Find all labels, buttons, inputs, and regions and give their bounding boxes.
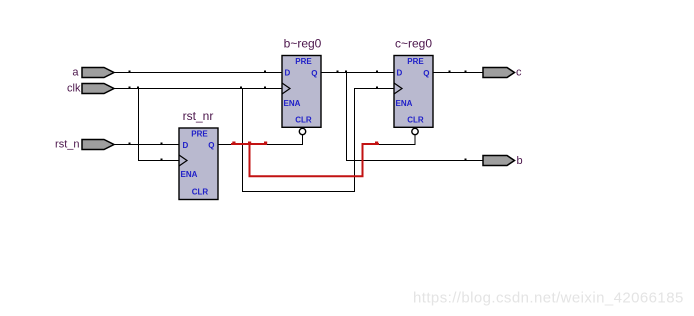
junction tick on net clk at x=241 bbox=[240, 87, 242, 89]
svg-text:b: b bbox=[517, 155, 523, 167]
highlighted red net vertical and bottom route bbox=[250, 144, 380, 176]
junction tick on c~reg0 clock branch at x=377 bbox=[376, 87, 378, 89]
svg-text:D: D bbox=[397, 69, 403, 78]
svg-text:c: c bbox=[516, 67, 522, 79]
label rst_n bbox=[55, 139, 79, 151]
junction tick on net clk at x=265 bbox=[264, 87, 266, 89]
flip-flop rst_nr bbox=[179, 128, 218, 200]
svg-text:PRE: PRE bbox=[295, 57, 312, 66]
flip-flop b~reg0 bbox=[282, 56, 321, 128]
svg-text:ENA: ENA bbox=[396, 99, 413, 108]
wire net c~reg0.Q to output c bbox=[433, 72, 483, 74]
svg-text:clk: clk bbox=[67, 83, 81, 95]
svg-text:rst_n: rst_n bbox=[55, 139, 79, 151]
junction tick on rst_nr clock branch at x=161.5 bbox=[161, 159, 163, 161]
label b~reg0 bbox=[284, 37, 322, 51]
red tick at x=376.5 bbox=[375, 142, 378, 145]
red tick at x=249 bbox=[248, 142, 251, 145]
svg-text:ENA: ENA bbox=[284, 99, 301, 108]
junction tick on net b~reg0.Q at x=377 bbox=[376, 71, 378, 73]
wire rst_nr Q to b~reg0 CLRN bubble bbox=[218, 135, 303, 145]
junction tick on net b at x=465.5 bbox=[465, 159, 467, 161]
input pin a bbox=[82, 68, 114, 78]
wire net a: input a to b~reg0 D bbox=[114, 72, 282, 74]
svg-text:D: D bbox=[285, 69, 291, 78]
red tick at x=233 bbox=[232, 142, 235, 145]
label a bbox=[72, 67, 79, 79]
input pin clk bbox=[82, 84, 114, 94]
wire net clk: input clk to b~reg0 CLK bbox=[114, 88, 282, 90]
svg-text:c~reg0: c~reg0 bbox=[395, 37, 432, 51]
wire net b~reg0.Q branch down to output b bbox=[347, 73, 484, 161]
junction tick on net a at x=129.5 bbox=[129, 71, 131, 73]
junction tick on net clk at x=138 bbox=[137, 87, 139, 89]
junction tick on net b~reg0.Q at x=337.5 bbox=[337, 71, 339, 73]
svg-text:Q: Q bbox=[423, 69, 429, 78]
label clk bbox=[67, 83, 81, 95]
junction tick on net c at x=465.5 bbox=[465, 71, 467, 73]
CLRN bubble of c~reg0 bbox=[412, 128, 418, 134]
input pin rst_n bbox=[82, 140, 114, 150]
svg-text:https://blog.csdn.net/weixin_4: https://blog.csdn.net/weixin_42066185 bbox=[413, 290, 684, 307]
wire rst_nr net to c~reg0 CLRN bubble bbox=[378, 135, 415, 145]
label rst_nr bbox=[183, 109, 214, 123]
label c~reg0 bbox=[395, 37, 432, 51]
svg-text:PRE: PRE bbox=[191, 129, 208, 138]
svg-text:rst_nr: rst_nr bbox=[183, 109, 214, 123]
wire net b~reg0.Q to c~reg0 D bbox=[321, 72, 394, 74]
svg-text:ENA: ENA bbox=[181, 170, 198, 179]
svg-text:D: D bbox=[183, 141, 189, 150]
wire clk branch down to rst_nr clock bbox=[139, 89, 180, 161]
junction tick on net clk at x=129.5 bbox=[129, 87, 131, 89]
junction tick on net c at x=449.5 bbox=[449, 71, 451, 73]
label b bbox=[517, 155, 523, 167]
junction tick on net a at x=265 bbox=[264, 71, 266, 73]
CLRN bubble of b~reg0 bbox=[299, 128, 305, 134]
output pin b bbox=[483, 156, 515, 166]
junction tick on net rst_n at x=161.5 bbox=[161, 143, 163, 145]
watermark bbox=[413, 290, 684, 307]
svg-text:PRE: PRE bbox=[407, 57, 424, 66]
junction tick on net rst_n at x=129.5 bbox=[129, 143, 131, 145]
flip-flop c~reg0 bbox=[394, 56, 433, 128]
wire clk branch around to c~reg0 clock bbox=[243, 89, 395, 192]
highlighted red net rst_nr.Q segment near Q output bbox=[231, 143, 267, 145]
svg-text:CLR: CLR bbox=[407, 116, 424, 125]
output pin c bbox=[483, 68, 515, 78]
label c bbox=[516, 67, 522, 79]
svg-text:Q: Q bbox=[311, 69, 317, 78]
svg-text:CLR: CLR bbox=[295, 116, 312, 125]
svg-text:Q: Q bbox=[208, 141, 214, 150]
junction tick on net b~reg0.Q at x=346 bbox=[345, 71, 347, 73]
svg-text:b~reg0: b~reg0 bbox=[284, 37, 322, 51]
svg-text:a: a bbox=[72, 67, 79, 79]
svg-text:CLR: CLR bbox=[192, 187, 209, 196]
wire net rst_n: input rst_n to rst_nr D bbox=[114, 144, 179, 146]
red tick at x=265.5 bbox=[264, 142, 267, 145]
